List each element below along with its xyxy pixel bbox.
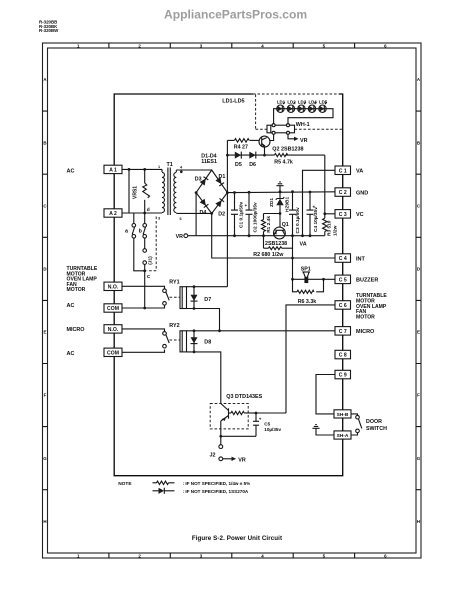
switch b [143,213,147,249]
J1 dashed link [147,217,157,271]
node c-COM junction [143,307,146,310]
label Q3 DTD143ES [226,394,262,400]
page title header [164,8,307,22]
label D8 [204,340,211,346]
svg-text:VR: VR [300,138,308,144]
diode D6 [249,152,256,159]
wire N.O. to RY1 contact [122,286,165,289]
terminal SH-A [334,431,351,439]
svg-text:C 2: C 2 [339,190,347,196]
wire bridge left vertex down to raw rail [195,193,197,236]
wire COM to RY1 contact [122,305,165,308]
svg-text:C 4: C 4 [339,256,347,262]
svg-text:R6 3.3k: R6 3.3k [298,299,317,305]
wire C5 bottom to Q3 emitter [221,435,256,437]
svg-text:C 1: C 1 [339,168,347,174]
svg-text:D5: D5 [235,162,242,168]
svg-text:VA: VA [300,242,307,248]
label ZD1 [269,198,275,207]
svg-text:C 9: C 9 [339,373,347,379]
svg-text:4: 4 [180,166,183,170]
ground symbol at door switch [312,425,319,429]
svg-text:D1: D1 [219,174,226,180]
capacitor C1 0.1u/50v [231,192,238,235]
frame zone numbers bottom [77,554,387,559]
diode D7 [191,287,198,309]
terminal C7 [335,327,351,336]
svg-text:RY1: RY1 [169,279,179,285]
svg-text:VR: VR [176,234,184,240]
node C2 [248,191,251,237]
terminal N.O. (RY2) [104,325,122,333]
node C5 top [255,412,258,415]
T1 pin numbers [158,165,183,221]
label GND [356,190,368,196]
wire A1 to transformer primary [122,168,162,170]
diode D2 (bottom-right arm) [215,198,224,207]
label C1 [238,201,244,228]
node C3 top and rail [291,190,294,237]
wire T1 secondary top to bridge [176,169,211,171]
C4 polarity mark [313,205,316,210]
transistor Q1 2SB1238 [274,214,286,239]
svg-text:A: A [417,77,421,82]
relay RY1 coil [180,287,187,309]
svg-text:C 5: C 5 [339,278,347,284]
label T1 [167,162,173,168]
LED LD4 [308,102,316,112]
label HZ9B1 [285,196,291,212]
svg-text:AC: AC [67,303,75,309]
VR arrow at J2 [223,457,246,464]
svg-text:VRS1: VRS1 [132,186,138,199]
svg-text:T1: T1 [167,162,173,168]
label J2 [210,452,216,458]
transistor Q2 2SB1238 [259,136,270,147]
svg-text:F: F [44,393,47,398]
svg-text:WH-1: WH-1 [296,122,310,128]
node A1 junction dots [128,168,147,171]
node Q2 emitter junction [263,154,266,157]
diode D8 [191,331,198,352]
INT line from bridge bottom to terminal C4 [212,213,335,258]
label C3 [295,207,301,234]
label RY2 [169,323,179,329]
drawing frame inner border [48,48,417,553]
svg-text:LD2: LD2 [287,99,296,104]
svg-text:C1 0.1µ/50v: C1 0.1µ/50v [238,201,244,228]
RY1 coil top rail [187,286,228,288]
svg-text:E: E [44,330,47,335]
RY1 coil bottom rail [187,309,220,331]
C2 polarity mark [245,203,248,208]
note resistor text [183,481,251,486]
wire VA rail to SP1 node vertical [292,236,294,280]
svg-text:d: d [147,207,150,213]
label (J1) [148,256,154,265]
connector WH-1 pins [272,124,289,135]
svg-text:COM: COM [107,351,119,357]
label a [125,228,128,234]
svg-text:(J1): (J1) [148,256,154,265]
svg-text:D2: D2 [218,212,225,218]
svg-text:D: D [417,267,420,272]
capacitor C2 1000u/35v [246,192,253,236]
svg-text:LD5: LD5 [319,99,328,104]
note diode text [183,489,249,494]
label C4 [313,207,319,232]
Q1 emitter arrow [274,230,277,235]
connector WH-1 body [267,125,295,133]
node bridge bottom vertex [210,212,213,215]
node ZD1-R1-Q1 base [264,212,282,215]
svg-text:D: D [43,267,46,272]
label BUZZER [356,278,378,284]
main circuit board outline [114,94,343,476]
svg-text:R3 510: R3 510 [327,220,333,236]
svg-text:R2 680 1/2w: R2 680 1/2w [253,252,284,258]
svg-text:R-320BW: R-320BW [39,28,59,33]
svg-text:Q3 DTD143ES: Q3 DTD143ES [226,394,262,400]
svg-text:LD3: LD3 [298,99,307,104]
ground symbol above ZD1 [276,182,283,193]
svg-text:RY2: RY2 [169,323,179,329]
connector J2 [219,445,223,461]
svg-text:DOOR: DOOR [366,419,382,425]
svg-text:AC: AC [67,351,75,357]
label SP1 [301,267,311,273]
zener diode ZD1 [276,192,285,214]
left side label TURNTABLE MOTOR OVEN LAMP FAN MOTOR [67,266,98,293]
svg-text:MOTOR: MOTOR [67,287,86,293]
left side label AC (bottom) [67,351,75,357]
svg-text:D6: D6 [249,162,256,168]
varistor VRS1 [143,169,150,213]
diode D5 [235,152,242,159]
label TURNTABLE MOTOR OVEN LAMP FAN MOTOR right [356,293,387,320]
label b [139,228,143,234]
wire SH-A to ground [316,428,334,435]
label R4 27 [234,145,248,151]
svg-text:: IF NOT SPECIFIED, 1/4w ± 5%: : IF NOT SPECIFIED, 1/4w ± 5% [183,481,251,486]
node VC junction [323,212,326,215]
label VA near Q1 [300,242,307,248]
capacitor C3 0.1u/50v on long vertical [289,192,296,236]
label D1-D4 11ES1 [201,153,217,165]
resistor R4 27 [227,139,259,143]
resistor R6 3.3k loop [293,279,324,293]
capacitor C5 10u/35v [253,413,259,436]
svg-text:SP1: SP1 [301,267,311,273]
svg-text:LD4: LD4 [308,99,317,104]
svg-text:10µ/35v: 10µ/35v [264,427,281,432]
node D7 ends [193,285,196,310]
connector J1 [143,249,147,271]
labels C5 10u/35v [264,422,281,432]
terminal SH-B [334,410,351,418]
svg-text:H: H [417,519,420,524]
svg-text:C4 10µ/35v: C4 10µ/35v [313,207,319,232]
bridge arm labels [195,174,226,218]
node INT junction [291,257,294,260]
buzzer line to terminal C5 [293,278,336,280]
diode D4 (bottom-left arm) [200,199,209,208]
wire Q3 base line to C6 riser [256,412,286,414]
door switch contacts [351,414,362,435]
wire N.O.2 to RY2 contact [122,329,165,332]
svg-text:C 3: C 3 [339,212,347,218]
labels D5 D6 [235,162,256,168]
relay RY2 coil [180,331,187,352]
resistor R2 680 1/2w [264,247,293,250]
svg-text:C3 0.1µ/50v: C3 0.1µ/50v [295,207,301,234]
resistor R1 2.4k [262,214,266,236]
label MICRO right [356,329,375,335]
micro line RY2 top rail to terminal C7 [187,330,336,332]
node bridge left vertex [195,191,198,194]
terminal A2 [104,209,122,217]
wire Q2 collector to WH-1 pin [270,133,274,141]
node D8 ends [193,329,196,353]
svg-text:E: E [417,330,420,335]
node C4 [309,191,312,238]
RY1 mechanical dashed link [170,296,180,298]
svg-text:D8: D8 [204,340,211,346]
wire R5 down to VC node [324,155,326,214]
terminal N.O. (RY1) [104,282,122,290]
svg-text:C5: C5 [264,422,270,427]
label R6 3.3k [298,299,317,305]
VR circle at raw rail [176,234,188,240]
svg-text:2SB1238: 2SB1238 [265,241,287,247]
switch a [132,213,145,271]
svg-text:VC: VC [356,212,364,218]
terminal C9 [335,370,351,379]
note diode symbol [153,488,175,494]
svg-text:NOTE: NOTE [118,481,132,487]
node SP1 left [291,278,294,281]
diode D3 (top-left arm) [200,177,209,186]
label VRS1 [132,186,138,199]
node emitter-C5 junction [219,435,222,438]
svg-text:LD1: LD1 [277,99,286,104]
node RY1 rail joins micro line [218,329,221,332]
raw/VA rail [188,235,325,237]
svg-text:Q1: Q1 [282,222,289,228]
svg-text:a: a [125,228,128,234]
svg-text:B: B [43,140,46,145]
transistor Q3 internals [221,404,231,422]
svg-text:C 8: C 8 [339,353,347,359]
node VA wire bottom [301,234,304,237]
VR arrow at WH-1 [288,134,308,144]
wire C6 line riser [286,305,335,413]
svg-text:LD1-LD5: LD1-LD5 [222,99,244,105]
Q2 emitter arrow [262,143,265,147]
svg-text:D3: D3 [195,177,202,183]
figure caption [192,535,282,542]
svg-text:GND: GND [356,190,368,196]
svg-text:C 6: C 6 [339,303,347,309]
relay RY2 contact [163,332,170,348]
svg-text:+: + [259,417,262,422]
LED display dashed box [253,94,343,129]
svg-text:B: B [417,140,420,145]
wire bridge right vertex vertical (R4 feed down to RY1 coil) [226,140,228,286]
svg-text:C2 1000µ/35v: C2 1000µ/35v [253,202,259,233]
transistor Q3 DTD143ES dashed box [210,404,248,429]
relay RY1 contact [163,289,170,305]
svg-text:C 7: C 7 [339,329,347,335]
svg-text:+: + [245,203,248,208]
wire T1 secondary bottom to bridge [176,212,211,214]
svg-text:AC: AC [67,168,75,174]
Q3 base resistor [231,411,256,414]
label VC [356,212,364,218]
node d [143,207,150,214]
svg-text:11ES1: 11ES1 [201,159,217,165]
svg-text:AppliancePartsPros.com: AppliancePartsPros.com [164,8,307,22]
svg-text:A 2: A 2 [109,211,117,217]
label LD1-LD5 [222,99,244,105]
frame zone letters right [417,77,421,524]
node c [143,269,150,279]
node C1 top [233,191,236,237]
wire VC to terminal C3 [325,213,335,215]
labels Q1 2SB1238 [265,222,289,247]
LED labels LD1-LD5 [277,99,328,104]
bridge rectifier D1-D4 outline [196,170,227,213]
svg-text:N.O.: N.O. [108,285,119,291]
svg-text:: IF NOT SPECIFIED, 1SS270A: : IF NOT SPECIFIED, 1SS270A [183,489,249,494]
LED LD3 [298,102,306,112]
terminal C2 [335,188,351,197]
label INT [356,256,366,262]
wire raw rail to R2 [263,236,265,249]
svg-text:J2: J2 [210,452,216,458]
svg-text:ZD1: ZD1 [269,198,275,207]
svg-text:R5 4.7k: R5 4.7k [274,160,293,166]
left side label AC (mid) [67,303,75,309]
C5 polarity mark [259,417,262,422]
svg-text:6: 6 [180,217,182,221]
node R1 bottom [262,234,265,237]
svg-text:b: b [139,228,143,234]
wire A1-A2 link [128,169,130,213]
RY2 coil bottom rail to Q3 [187,352,221,404]
svg-text:MOTOR: MOTOR [356,314,375,320]
LED wire bus [274,109,333,126]
note label [118,481,132,487]
svg-text:R1 2.4k: R1 2.4k [266,216,272,233]
resistor R3 510 1/2w [323,214,327,236]
wire COM2 to RY2 contact [122,350,165,353]
label D7 [204,297,211,303]
wire c down to COM [144,271,146,308]
svg-text:C: C [417,203,421,208]
model numbers [39,20,59,34]
svg-text:D4: D4 [200,210,207,216]
buzzer SP1 [302,272,310,283]
terminal C8 [335,350,351,359]
diode D1 (top-right arm) [215,177,224,186]
svg-text:G: G [43,456,47,461]
terminal A1 [104,165,122,173]
svg-text:C: C [43,203,47,208]
drawing frame outer border [43,43,422,558]
Q3 emitter arrow [222,418,226,421]
label C2 [253,202,259,233]
wire C9 to SH-B loop [316,375,335,414]
label RY1 [169,279,179,285]
wire VA output to terminal C1 [303,170,336,235]
label Q2 2SB1238 [272,147,303,153]
RY2 mechanical dashed link [170,339,180,341]
label R3 510 1/2w [327,220,339,236]
note resistor symbol [153,481,175,484]
svg-text:INT: INT [356,256,366,262]
node D5 branch [226,154,229,157]
LED LD2 [287,102,295,112]
svg-text:MICRO: MICRO [67,327,85,333]
svg-text:R4 27: R4 27 [234,145,248,151]
svg-text:VR: VR [238,457,246,463]
capacitor C4 10u/35v [307,192,314,236]
svg-text:Figure S-2. Power Unit Circuit: Figure S-2. Power Unit Circuit [192,535,282,542]
svg-text:c: c [147,274,150,280]
terminal C3 [335,210,351,219]
svg-text:SWITCH: SWITCH [366,426,387,432]
node secondary pin 4 [180,171,183,174]
label DOOR SWITCH [366,419,387,432]
svg-text:MICRO: MICRO [356,329,375,335]
frame zone tick marks [43,43,422,558]
frame zone letters left [43,77,47,524]
terminal C1 [335,166,351,175]
wire Q2 emitter down to D6 line [264,147,266,155]
svg-text:1/2w: 1/2w [332,225,338,236]
terminal COM (RY2) [104,348,122,356]
left side label AC (top) [67,168,75,174]
resistor R5 4.7k [275,154,288,157]
wire A2 to transformer primary [122,212,162,214]
LED LD5 [319,102,327,112]
svg-text:SH-A: SH-A [337,433,349,439]
terminal COM (RY1) [104,304,122,312]
label VA [356,169,363,175]
label R2 680 1/2w [253,252,284,258]
LED LD1 [277,102,285,112]
node bridge right vertex [226,191,229,194]
label R1 2.4k [266,216,272,233]
svg-text:COM: COM [107,306,119,312]
wire Q3 emitter down to J2 [220,421,222,445]
svg-text:A: A [43,77,47,82]
svg-text:BUZZER: BUZZER [356,278,378,284]
svg-text:VA: VA [356,169,363,175]
node SP1 right [322,278,325,281]
svg-text:D7: D7 [204,297,211,303]
svg-text:Q2 2SB1238: Q2 2SB1238 [272,147,303,153]
svg-text:SH-B: SH-B [337,412,349,418]
svg-text:3: 3 [158,217,160,221]
wire D5 D6 line [227,154,324,156]
terminal C5 [335,275,351,284]
label WH-1 [296,122,310,128]
svg-text:A 1: A 1 [109,168,117,174]
label R5 4.7k [274,160,293,166]
terminal C6 [335,301,351,310]
